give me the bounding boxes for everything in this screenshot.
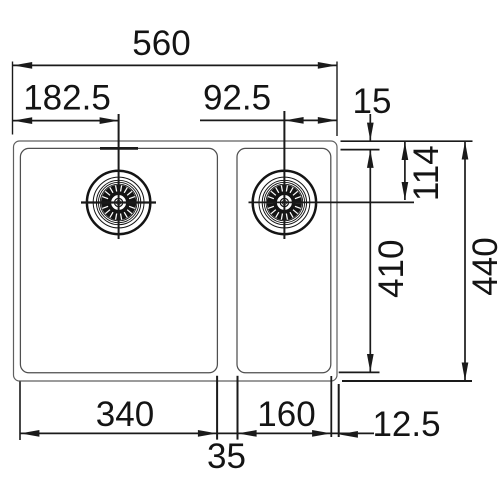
svg-text:410: 410 (372, 239, 411, 297)
arrow 560 right (318, 62, 337, 69)
bottom extension line x=217.1 (216, 376, 218, 440)
dimension 92.5 line with leader (200, 119, 337, 121)
arrow 340 left (20, 430, 39, 437)
svg-text:160: 160 (257, 395, 315, 434)
left bowl (20, 148, 217, 372)
sink top edge extension line (341, 140, 473, 142)
drain right (253, 171, 316, 234)
svg-text:560: 560 (132, 24, 190, 63)
bowl top edge extension line (341, 149, 380, 151)
svg-text:114: 114 (407, 145, 446, 201)
svg-text:440: 440 (466, 237, 500, 295)
arrow 182.5 left (13, 117, 32, 124)
arrow 340 right (198, 430, 217, 437)
sink outer rim (14, 141, 338, 381)
arrow 12.5 (339, 431, 358, 438)
extension line right (x=337) (336, 62, 338, 137)
left drain centerline horizontal (81, 201, 156, 203)
arrow 182.5 right (100, 117, 119, 124)
svg-text:182.5: 182.5 (23, 78, 111, 117)
dimension 15 arrow (369, 114, 371, 141)
bottom extension line x=237.5 (237, 376, 239, 440)
right drain centerline horizontal / 114 bottom extension (249, 201, 415, 203)
drain left (87, 171, 150, 234)
arrow 160 left (238, 430, 257, 437)
arrow 560 left (13, 62, 32, 69)
arrow 92.5 right (318, 117, 337, 124)
left drain centerline vertical (118, 114, 120, 239)
dimension 114 line (404, 142, 406, 200)
right drain centerline vertical (283, 111, 285, 239)
right bowl (237, 148, 331, 372)
arrow 92.5 left (285, 117, 304, 124)
svg-text:15: 15 (353, 82, 392, 121)
extension line left (x=12.5) (12, 62, 14, 135)
bottom extension line x=20 (19, 382, 21, 441)
svg-text:92.5: 92.5 (203, 78, 271, 117)
dimension 182.5 line (13, 120, 119, 122)
dimension 440 line (464, 142, 466, 381)
left bowl top center tick (100, 147, 138, 150)
bowl bottom edge extension line (339, 371, 380, 373)
bottom dimension chain line (20, 432, 374, 434)
dimension 410 line (369, 150, 371, 372)
bottom extension line x=338.7 (338, 384, 340, 437)
bottom extension line x=331.3 (330, 376, 332, 437)
arrow 160 right (312, 430, 331, 437)
svg-text:340: 340 (96, 395, 154, 434)
rim bottom edge extension line (342, 380, 472, 382)
svg-text:35: 35 (207, 437, 246, 476)
dimension 560 line (13, 64, 337, 66)
svg-text:12.5: 12.5 (372, 405, 440, 444)
